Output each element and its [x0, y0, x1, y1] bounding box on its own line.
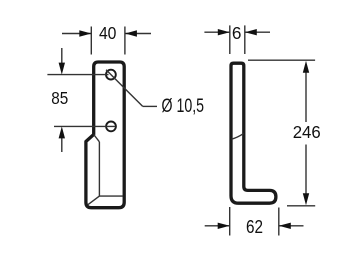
dim 40 arrow right — [125, 30, 137, 36]
dim 40 line left — [62, 33, 91, 35]
svg-text:Ø 10,5: Ø 10,5 — [162, 95, 205, 117]
dim 62 arrow left — [218, 223, 230, 229]
svg-text:6: 6 — [232, 23, 242, 43]
front view inner flange diagonal line — [88, 196, 100, 205]
svg-text:85: 85 — [51, 88, 68, 108]
dim 6 line left — [204, 31, 229, 33]
leader line diagonal through top hole — [106, 70, 143, 107]
svg-text:246: 246 — [293, 122, 321, 142]
svg-text:62: 62 — [246, 217, 263, 237]
dim 85 extension line top (through top hole) — [47, 74, 108, 76]
dim 85 arrow bottom — [59, 126, 65, 138]
dim 40 extension line left — [90, 27, 92, 55]
dim 62 line right — [279, 225, 303, 227]
dim 62 extension line right — [278, 208, 280, 236]
dim 246 arrow top — [303, 61, 309, 73]
svg-text:40: 40 — [99, 23, 117, 43]
dim 246 extension line bottom — [287, 205, 315, 207]
front view inner flange horizontal line — [99, 195, 122, 197]
hole top — [106, 70, 116, 80]
dim 246 arrow bottom — [303, 193, 309, 205]
dim 62 line left — [205, 225, 230, 227]
dim 6 arrow left — [218, 29, 230, 35]
dim 6 extension line left — [229, 25, 231, 54]
side view bend mark — [232, 134, 244, 140]
dim 246 line upper — [305, 71, 307, 122]
dim 40 extension line right — [124, 27, 126, 55]
front view bracket outline — [86, 62, 124, 208]
leader line horizontal stub — [143, 105, 157, 107]
dim 62 arrow right — [279, 223, 291, 229]
dim 62 extension line left — [229, 207, 231, 236]
dim 85 arrow top — [59, 63, 65, 75]
side view L-profile outline — [231, 63, 276, 203]
dim 40 arrow left — [79, 30, 91, 36]
dim 85 line bottom — [61, 137, 63, 152]
dim 6 line right — [245, 31, 270, 33]
front view inner edge vertical line — [98, 142, 100, 196]
dim 85 extension line bottom (through bottom hole) — [54, 125, 115, 127]
dim 6 extension line right — [244, 25, 246, 54]
dim 85 line top — [61, 48, 63, 64]
dim 246 extension line top — [248, 59, 315, 61]
dim 246 line lower — [305, 145, 307, 196]
front view bend line (thin diagonal at jog) — [94, 135, 100, 142]
dim 40 line right — [125, 33, 151, 35]
hole bottom — [106, 122, 116, 132]
dim 6 arrow right — [245, 29, 257, 35]
